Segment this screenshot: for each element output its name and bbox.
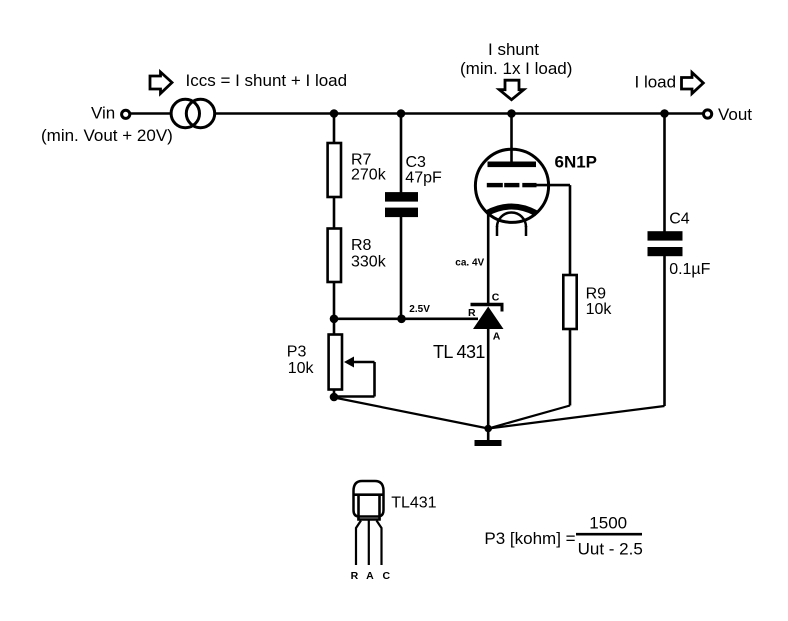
svg-text:I shunt: I shunt (488, 40, 539, 59)
svg-text:R8: R8 (351, 237, 372, 254)
svg-text:Vin: Vin (91, 103, 115, 122)
svg-text:TL431: TL431 (391, 495, 436, 512)
TO-92 leg A (368, 521, 370, 566)
svg-text:R9: R9 (586, 285, 607, 302)
svg-text:(min. 1x I load): (min. 1x I load) (460, 59, 572, 78)
junction dot node C3 top (397, 109, 406, 118)
arrow Iccs (block arrow right) (150, 72, 172, 94)
current source CCS (two overlapping circles) (171, 99, 215, 127)
potentiometer P3 body (329, 335, 342, 390)
arrow I load (block arrow right) (682, 73, 704, 94)
resistor R9 (563, 275, 576, 329)
junction dot node R7 top (330, 109, 339, 118)
svg-text:10k: 10k (288, 360, 315, 377)
wire bus to P3 (333, 319, 336, 335)
TO-92 leg R (356, 521, 361, 566)
wire wiper loop (353, 361, 375, 364)
svg-text:Uut - 2.5: Uut - 2.5 (578, 540, 643, 559)
TL431 package TO-92 outline (351, 481, 437, 582)
junction dot node P3 bottom (330, 393, 339, 402)
svg-text:R: R (351, 570, 359, 582)
svg-text:C4: C4 (669, 210, 690, 227)
svg-text:2.5V: 2.5V (409, 304, 430, 315)
wire C4 to ground corner (663, 256, 666, 406)
resistor R8 (328, 229, 341, 283)
node Vout terminal (704, 110, 712, 118)
svg-text:A: A (366, 570, 374, 582)
tube heater arc (497, 213, 526, 228)
wire top bus Vin to Vout (130, 112, 704, 115)
svg-text:C: C (492, 292, 500, 304)
wire R7 to R8 (333, 197, 336, 229)
tube cathode arc (486, 207, 537, 214)
resistor R7 (328, 143, 341, 197)
wire grid lead to R9 (537, 184, 571, 187)
svg-text:47pF: 47pF (405, 170, 442, 187)
svg-text:10k: 10k (586, 301, 613, 318)
svg-text:TL 431: TL 431 (433, 342, 485, 362)
svg-text:Vout: Vout (718, 105, 752, 124)
svg-text:P3 [kohm] =: P3 [kohm] = (484, 529, 575, 548)
TO-92 inner body (357, 495, 360, 520)
wire anode lead (510, 114, 513, 164)
TO-92 leg C (377, 521, 382, 566)
TL431 cathode bar tick (501, 305, 504, 312)
tube heater legs (496, 226, 499, 236)
svg-text:0.1µF: 0.1µF (669, 261, 710, 278)
junction dot node C3 bottom (397, 315, 406, 324)
svg-text:Iccs = I shunt + I load: Iccs = I shunt + I load (186, 71, 348, 90)
wire diagonal R9 to ground junction (488, 406, 570, 429)
wire bus to C3 (400, 114, 403, 194)
junction dot node C4 top (660, 109, 669, 118)
TO-92 collar line (355, 493, 383, 496)
svg-text:I load: I load (635, 72, 677, 91)
TL431 cathode bar (471, 303, 504, 306)
wire bus to C4 (663, 114, 666, 233)
arrow I shunt (block arrow down) (499, 80, 523, 100)
wire C3 to bottom bus (400, 217, 403, 320)
wire bus to R7 (333, 114, 336, 145)
svg-text:1500: 1500 (589, 513, 627, 532)
svg-text:270k: 270k (351, 167, 387, 184)
potentiometer P3 wiper arrow (344, 357, 354, 368)
svg-text:6N1P: 6N1P (555, 152, 598, 171)
svg-text:R: R (468, 307, 476, 319)
tube grid (dashed) (487, 183, 503, 187)
svg-text:P3: P3 (287, 343, 307, 360)
junction dot node R8 bottom (330, 315, 339, 324)
svg-text:C: C (383, 570, 391, 582)
svg-text:(min. Vout + 20V): (min. Vout + 20V) (41, 126, 173, 145)
wire cathode lead (487, 211, 490, 305)
wire diagonal C4 to ground junction (488, 406, 664, 429)
formula P3 [kohm] = 1500 / (Uut - 2.5) (484, 513, 642, 558)
capacitor C3 (385, 192, 418, 202)
node Vin terminal (122, 110, 130, 118)
TL431 triangle (473, 307, 504, 330)
shunt reference TL431 symbol (433, 292, 504, 363)
junction dot ground node (484, 425, 492, 433)
fraction bar (576, 533, 642, 536)
wire diagonal P3 to ground junction (334, 398, 488, 429)
svg-text:ca. 4V: ca. 4V (455, 257, 484, 268)
wire R9 to ground corner (569, 328, 572, 406)
wire TL431 anode to ground (487, 328, 490, 441)
wire R8 to bottom bus (333, 281, 336, 320)
tube 6N1P envelope (475, 149, 548, 222)
svg-text:330k: 330k (351, 253, 387, 270)
ground symbol (475, 440, 502, 446)
capacitor C4 (648, 231, 683, 240)
junction dot node anode (507, 109, 516, 118)
tube anode plate (488, 162, 537, 168)
svg-text:A: A (493, 331, 501, 343)
wire P3 bottom (333, 390, 336, 399)
wire bottom bus (2.5V net) (334, 317, 478, 320)
